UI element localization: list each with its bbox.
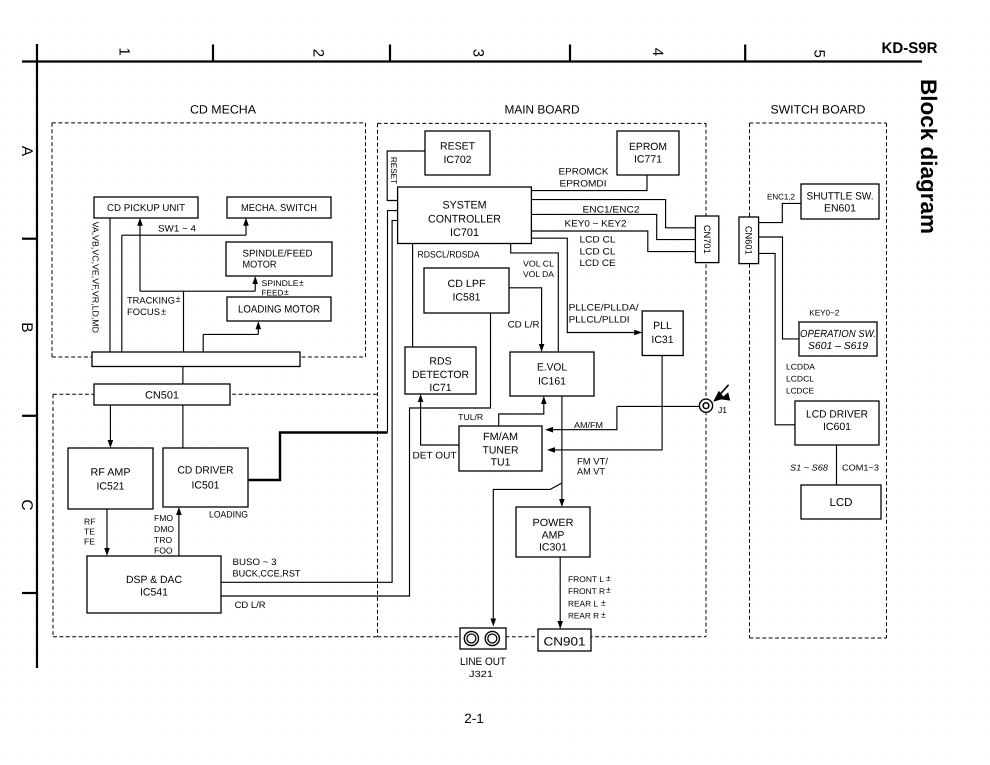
wire FM VT/AM VT from PLL to tuner: [555, 356, 663, 450]
svg-text:±: ±: [284, 287, 289, 297]
svg-text:±: ±: [601, 610, 606, 620]
svg-text:KEY0~2: KEY0~2: [809, 308, 839, 317]
svg-text:±: ±: [606, 585, 611, 595]
svg-text:CN501: CN501: [145, 390, 179, 402]
PLL IC31: [642, 311, 683, 356]
svg-text:FRONT R: FRONT R: [568, 587, 605, 596]
CD DRIVER IC501: [163, 448, 248, 507]
svg-text:CD LPF: CD LPF: [448, 278, 486, 290]
svg-text:S1 ~ S68: S1 ~ S68: [790, 463, 828, 473]
svg-text:J321: J321: [469, 669, 493, 679]
svg-text:FE: FE: [84, 537, 95, 547]
SHUTTLE SW. EN601: [801, 184, 879, 219]
E.VOL IC161: [510, 352, 594, 396]
svg-text:VA,VB,VC,VE,VF,VR,LD,MD: VA,VB,VC,VE,VF,VR,LD,MD: [90, 222, 100, 333]
svg-text:AMP: AMP: [542, 530, 565, 542]
svg-text:RESET: RESET: [440, 141, 476, 153]
svg-text:IC301: IC301: [539, 542, 567, 554]
wire RDSCL/RDSDA to RDS detector: [412, 244, 414, 348]
wire LOADING thick from CD DRIVER to system controller: [248, 433, 388, 481]
svg-text:IC501: IC501: [192, 480, 220, 492]
wire RF AMP to DSP with RF TE FE labels: [106, 509, 108, 549]
svg-text:IC702: IC702: [444, 154, 472, 166]
svg-text:5: 5: [811, 50, 828, 58]
svg-text:RDS: RDS: [429, 356, 451, 368]
svg-text:EPROM: EPROM: [629, 141, 667, 153]
svg-text:AM VT: AM VT: [577, 467, 605, 477]
svg-text:J1: J1: [718, 405, 727, 415]
MAIN BOARD dashed region: [378, 122, 707, 124]
svg-text:VOL CL: VOL CL: [523, 259, 554, 269]
svg-text:DMO: DMO: [154, 524, 174, 534]
svg-text:FEED: FEED: [262, 288, 284, 297]
wire LCD data to LCD driver: [759, 253, 795, 424]
svg-text:POWER: POWER: [533, 517, 574, 529]
wire E.VOL to POWER AMP: [561, 396, 563, 500]
connector CN501: [94, 384, 230, 405]
svg-text:FRONT L: FRONT L: [568, 575, 604, 584]
SPINDLE/FEED MOTOR: [226, 242, 332, 276]
MECHA. SWITCH: [227, 197, 331, 218]
wire ENC1,2 to shuttle switch: [759, 203, 801, 222]
svg-text:ENC1,2: ENC1,2: [767, 193, 795, 202]
wire branch to line out: [493, 483, 562, 619]
svg-text:RF: RF: [84, 517, 95, 527]
svg-text:CD MECHA: CD MECHA: [190, 102, 256, 116]
svg-text:AM/FM: AM/FM: [574, 420, 603, 430]
svg-text:PLLCL/PLLDI: PLLCL/PLLDI: [569, 315, 630, 325]
svg-text:LINE OUT: LINE OUT: [460, 656, 506, 668]
svg-text:±: ±: [601, 598, 606, 608]
FM/AM TUNER TU1: [459, 426, 542, 471]
wire LCD CL/CL/CE to CN701: [531, 231, 695, 252]
svg-text:±: ±: [606, 573, 611, 583]
wire LCD driver to LCD: [836, 445, 838, 485]
svg-text:LCDDA: LCDDA: [786, 363, 816, 372]
wire EPROM to system controller: [531, 175, 647, 191]
svg-text:TUL/R: TUL/R: [458, 412, 483, 422]
ruler left line: [36, 44, 38, 668]
svg-text:PLL: PLL: [653, 320, 672, 332]
wire BUSO bus from DSP to system controller: [221, 220, 398, 582]
RESET IC702: [425, 131, 490, 175]
svg-text:IC521: IC521: [97, 481, 125, 493]
svg-text:REAR L: REAR L: [568, 600, 598, 609]
svg-text:MOTOR: MOTOR: [243, 260, 277, 271]
LOADING MOTOR: [227, 297, 331, 321]
wire loading motor: [257, 329, 259, 335]
ruler left ticks: [22, 238, 37, 240]
svg-text:TU1: TU1: [491, 457, 511, 469]
svg-text:EPROMDI: EPROMDI: [560, 179, 607, 189]
svg-text:KEY0 ~ KEY2: KEY0 ~ KEY2: [565, 219, 627, 229]
svg-text:RF AMP: RF AMP: [91, 467, 131, 479]
svg-text:TRO: TRO: [154, 535, 172, 545]
wire CD L/R from LPF to E.VOL: [509, 288, 542, 345]
CD MECHA dashed region: [52, 122, 366, 124]
svg-text:LCDCE: LCDCE: [786, 387, 815, 396]
svg-text:SHUTTLE SW.: SHUTTLE SW.: [807, 191, 874, 203]
wire AM/FM antenna to tuner: [553, 406, 617, 429]
svg-text:PLLCE/PLLDA/: PLLCE/PLLDA/: [569, 303, 639, 313]
svg-text:CN701: CN701: [702, 225, 712, 254]
svg-text:E.VOL: E.VOL: [537, 362, 567, 374]
svg-text:FM VT/: FM VT/: [577, 457, 608, 467]
svg-text:±: ±: [299, 278, 304, 288]
SWITCH BOARD dashed region: [750, 122, 887, 124]
svg-text:MECHA. SWITCH: MECHA. SWITCH: [241, 203, 317, 214]
svg-text:±: ±: [161, 307, 166, 317]
LCD DRIVER IC601: [795, 401, 879, 445]
antenna arrow at J1: [721, 385, 729, 394]
svg-text:TUNER: TUNER: [483, 445, 519, 457]
OPERATION SW. S601-S619: [799, 322, 877, 356]
svg-text:IC771: IC771: [634, 154, 662, 166]
svg-text:2-1: 2-1: [464, 711, 484, 726]
wire RESET from IC702 to system controller: [387, 151, 425, 201]
svg-text:IC541: IC541: [140, 587, 168, 599]
ruler top ticks: [212, 45, 214, 62]
svg-text:1: 1: [116, 47, 133, 55]
CD LPF IC581: [424, 268, 509, 313]
svg-text:LCD DRIVER: LCD DRIVER: [806, 409, 868, 421]
svg-text:C: C: [18, 499, 35, 510]
svg-text:LCD CE: LCD CE: [580, 258, 616, 268]
svg-text:LCD CL: LCD CL: [580, 247, 616, 257]
svg-text:KD-S9R: KD-S9R: [882, 40, 938, 57]
svg-text:LCD CL: LCD CL: [580, 235, 616, 245]
svg-text:FM/AM: FM/AM: [483, 431, 518, 443]
ruler top line: [22, 60, 922, 62]
svg-text:EPROMCK: EPROMCK: [559, 167, 610, 177]
svg-text:LOADING: LOADING: [209, 510, 248, 520]
svg-text:DSP & DAC: DSP & DAC: [126, 574, 182, 586]
mecha connector bar: [92, 352, 300, 367]
svg-text:CN901: CN901: [544, 635, 586, 649]
svg-text:IC701: IC701: [450, 227, 479, 239]
svg-text:SW1 ~ 4: SW1 ~ 4: [158, 224, 196, 234]
svg-text:S601 – S619: S601 – S619: [808, 341, 868, 352]
svg-text:MAIN BOARD: MAIN BOARD: [505, 102, 580, 116]
svg-text:CD PICKUP UNIT: CD PICKUP UNIT: [107, 203, 185, 214]
wire CN501 to RF AMP: [109, 405, 111, 441]
RF AMP IC521: [68, 448, 153, 509]
wire ENC1/ENC2 to CN701: [531, 200, 695, 228]
svg-text:CONTROLLER: CONTROLLER: [428, 214, 501, 226]
svg-text:B: B: [18, 322, 35, 332]
svg-text:A: A: [18, 146, 35, 157]
svg-text:RDSCL/RDSDA: RDSCL/RDSDA: [418, 250, 481, 260]
svg-text:FMO: FMO: [154, 513, 173, 523]
svg-text:FOCUS: FOCUS: [127, 307, 160, 317]
svg-text:RESET: RESET: [389, 157, 398, 184]
svg-text:SPINDLE: SPINDLE: [262, 279, 300, 288]
wire tracking/focus to CD pickup and spindle motor: [139, 226, 141, 292]
connector CN901: [538, 629, 591, 651]
svg-text:IC581: IC581: [453, 292, 481, 304]
connector CN601: [739, 217, 759, 264]
connector CN701: [695, 216, 718, 263]
svg-text:BUCK,CCE,RST: BUCK,CCE,RST: [233, 569, 301, 579]
RDS DETECTOR IC71: [405, 347, 476, 394]
svg-text:OPERATION SW.: OPERATION SW.: [800, 329, 876, 340]
svg-text:LOADING MOTOR: LOADING MOTOR: [238, 304, 320, 316]
svg-text:TE: TE: [84, 527, 95, 537]
svg-text:TRACKING: TRACKING: [127, 296, 175, 306]
svg-text:SYSTEM: SYSTEM: [443, 200, 487, 212]
svg-text:±: ±: [176, 294, 181, 304]
lower-left dashed region: [53, 393, 378, 395]
wire VOL CL/DA to E.VOL: [511, 244, 559, 353]
svg-text:DETECTOR: DETECTOR: [412, 369, 469, 381]
antenna J1: [617, 405, 699, 407]
svg-text:IC31: IC31: [651, 334, 673, 346]
CD PICKUP UNIT: [94, 197, 198, 218]
svg-text:LCDCL: LCDCL: [786, 375, 814, 384]
wire DSP to CD DRIVER with FMO DMO TRO FOO labels: [178, 515, 180, 557]
svg-text:IC71: IC71: [429, 382, 451, 394]
LINE OUT J321 jacks: [460, 628, 506, 649]
svg-text:EN601: EN601: [824, 203, 856, 215]
wire SW1-4 mecha switch: [245, 226, 247, 236]
wire VA,VB,VC signals - CD pickup to connector: [109, 218, 111, 353]
svg-text:CD L/R: CD L/R: [235, 600, 266, 610]
svg-text:ENC1/ENC2: ENC1/ENC2: [583, 205, 640, 215]
wire KEY0-KEY2 to CN701: [531, 214, 695, 239]
svg-text:COM1~3: COM1~3: [842, 463, 879, 473]
SYSTEM CONTROLLER IC701: [398, 187, 532, 244]
svg-text:CD L/R: CD L/R: [508, 319, 540, 329]
svg-text:CD DRIVER: CD DRIVER: [178, 465, 234, 477]
svg-text:4: 4: [649, 48, 666, 56]
svg-text:3: 3: [470, 49, 487, 57]
svg-text:BUSO ~ 3: BUSO ~ 3: [233, 557, 277, 567]
POWER AMP IC301: [516, 507, 590, 557]
svg-text:SWITCH BOARD: SWITCH BOARD: [771, 102, 866, 116]
svg-text:VOL DA: VOL DA: [523, 269, 554, 279]
wire connector bar to CN501: [182, 367, 184, 385]
svg-text:IC601: IC601: [823, 421, 851, 433]
LCD: [801, 485, 881, 519]
wire PLL control from system controller: [531, 238, 634, 332]
wire POWER AMP to CN901 with speaker labels: [559, 557, 561, 622]
svg-text:Block diagram: Block diagram: [916, 79, 941, 234]
svg-text:IC161: IC161: [538, 376, 566, 388]
wire CN501 to CD DRIVER: [182, 405, 184, 448]
svg-text:REAR R: REAR R: [568, 612, 599, 621]
svg-text:CN601: CN601: [744, 226, 754, 255]
svg-text:FOO: FOO: [154, 546, 173, 556]
svg-text:LCD: LCD: [829, 497, 852, 509]
wire DET OUT tuner to RDS detector: [421, 402, 459, 446]
EPROM IC771: [617, 131, 679, 175]
wire TUL/R tuner to E.VOL: [499, 404, 544, 427]
svg-text:DET OUT: DET OUT: [413, 451, 457, 462]
DSP & DAC IC541: [87, 556, 221, 613]
wire KEY0-2 to operation switches: [759, 237, 799, 339]
svg-text:SPINDLE/FEED: SPINDLE/FEED: [243, 249, 313, 260]
wire CD L/R from DSP to CD LPF: [221, 313, 491, 596]
svg-text:2: 2: [309, 49, 326, 57]
